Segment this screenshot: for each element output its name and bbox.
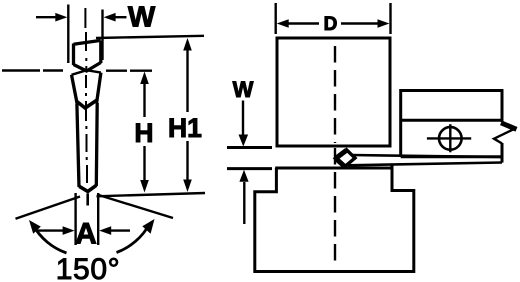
screw crosshair circle: [439, 127, 462, 150]
reference line right segments / H top extension: [106, 69, 152, 71]
D dimension line with outward arrows: [287, 22, 379, 24]
150 degree flank line right: [97, 195, 173, 219]
blade top line: [351, 155, 502, 157]
W dim right arrow: [112, 16, 127, 18]
angle arc arrow left: [33, 225, 67, 253]
svg-text:A: A: [75, 218, 97, 251]
shank right edge: [95, 103, 99, 186]
taper-to-shank chevron: [76, 100, 97, 108]
holder break symbol (zigzag): [501, 123, 517, 130]
svg-text:W: W: [128, 1, 156, 33]
diamond dresser insert: [335, 150, 355, 167]
svg-text:H: H: [134, 118, 153, 148]
diamond left thick part: [336, 150, 347, 158]
H dimension line with arrows: [143, 82, 145, 117]
workpiece top plateau: [275, 167, 393, 170]
horizontal reference dash line through tool at y=70.5: [2, 69, 63, 71]
svg-text:W: W: [233, 77, 254, 102]
taper section top V: [72, 70, 101, 75]
angle arc arrow right: [117, 224, 150, 253]
svg-text:H1: H1: [168, 113, 202, 143]
blade bottom line: [348, 163, 502, 166]
wheel centerline dashed: [334, 46, 336, 268]
tool centerline (dash-dot): [85, 8, 87, 183]
bottom extension line (tip level): [97, 193, 206, 196]
taper section sides: [72, 75, 78, 104]
150 degree flank line left: [16, 197, 81, 219]
tool tip chevron: [79, 185, 96, 191]
W dimension (top left): left extension line: [67, 5, 69, 64]
A dim right arrow: [107, 229, 130, 231]
W dimension (slot): down arrow: [242, 101, 244, 136]
tool holder block: [401, 91, 502, 158]
svg-text:D: D: [324, 14, 338, 35]
holder bottom edge: [401, 155, 502, 158]
A dim left arrow: [37, 229, 66, 231]
slot bottom line extending left: [227, 167, 272, 170]
grinding wheel block (D): [277, 38, 390, 146]
holder divider line: [401, 119, 502, 122]
A dim extension line left: [74, 193, 76, 245]
W dimension right extension line: [101, 10, 103, 61]
shank left edge: [77, 104, 79, 187]
left figure: dresser tool: [72, 8, 101, 192]
H1 dimension line with arrows: [186, 49, 188, 112]
D extension line right: [389, 3, 391, 34]
W dim left arrow: [36, 16, 59, 18]
D extension line left: [275, 3, 277, 34]
H1 top extension line: [96, 36, 204, 38]
workpiece lower block (hat profile): [255, 165, 414, 272]
centerline dash below tool tip: [86, 194, 89, 206]
A dim extension line right: [97, 193, 99, 245]
slot top line extending left of wheel: [227, 146, 272, 149]
hex head outline: [74, 40, 101, 44]
hex head bottom chamfer V: [74, 63, 101, 72]
svg-text:150°: 150°: [56, 253, 120, 282]
W dimension (slot): up arrow: [243, 182, 245, 224]
